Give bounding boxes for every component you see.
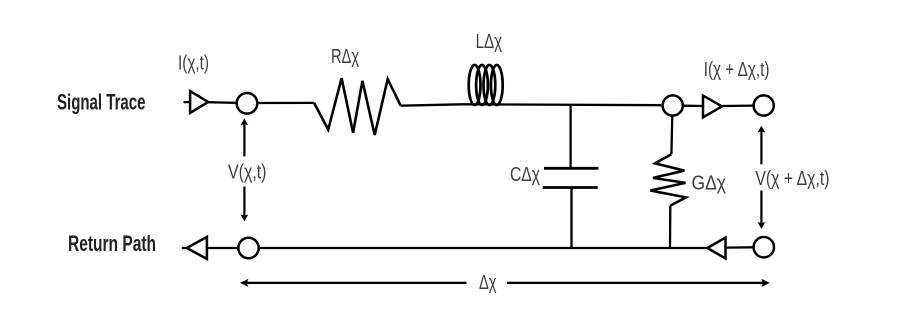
svg-text:LΔχ: LΔχ bbox=[476, 31, 503, 53]
svg-text:I(χ,t): I(χ,t) bbox=[178, 52, 209, 74]
wire buffer to bottom-right node bbox=[726, 246, 754, 249]
wire stub bottom-left bbox=[182, 247, 187, 249]
voltage arrow right down head bbox=[758, 222, 766, 229]
capacitor branch bottom wire bbox=[570, 188, 572, 248]
node circle top-right bbox=[754, 95, 774, 115]
svg-text:V(χ,t): V(χ,t) bbox=[228, 162, 267, 184]
voltage arrow left V(x,t) up head bbox=[241, 118, 249, 125]
conductance G zigzag bbox=[650, 154, 686, 206]
wire stub top-left bbox=[184, 101, 191, 103]
svg-text:RΔχ: RΔχ bbox=[331, 46, 359, 68]
voltage arrow left upper shaft bbox=[243, 123, 245, 156]
svg-text:Signal Trace: Signal Trace bbox=[57, 89, 146, 114]
capacitor branch top wire bbox=[569, 105, 571, 169]
dimension arrow left head bbox=[240, 279, 248, 287]
wire buffer to node 3 bbox=[722, 104, 753, 107]
return arrow buffer right (open triangle pointing left) bbox=[707, 238, 725, 259]
node circle bottom-left bbox=[238, 238, 258, 258]
resistor R zigzag bbox=[314, 78, 401, 135]
voltage arrow right V(x+dx,t) up head bbox=[758, 126, 766, 133]
capacitor C plates bbox=[544, 167, 598, 170]
inductor L coil loops bbox=[469, 65, 503, 105]
wire inductor to node 2 (with capacitor tap) bbox=[462, 103, 661, 106]
node circle bottom-right bbox=[754, 237, 774, 257]
voltage arrow right lower shaft bbox=[760, 191, 762, 225]
return arrow buffer left (open triangle pointing left) bbox=[187, 237, 207, 259]
wire triangle to bottom node bbox=[207, 247, 238, 249]
voltage arrow left lower shaft bbox=[243, 187, 245, 217]
svg-text:CΔχ: CΔχ bbox=[510, 164, 540, 186]
current arrow buffer left (open triangle) bbox=[190, 91, 208, 113]
dimension line right segment bbox=[507, 282, 764, 284]
conductance branch bottom wire bbox=[669, 206, 672, 248]
node circle top-middle bbox=[663, 95, 683, 115]
svg-text:GΔχ: GΔχ bbox=[692, 173, 727, 195]
return path rail bbox=[259, 247, 707, 249]
svg-text:Δχ: Δχ bbox=[479, 272, 497, 294]
node circle top-left bbox=[237, 93, 258, 114]
dimension line left segment bbox=[246, 282, 467, 284]
dimension arrow right head bbox=[761, 279, 769, 287]
voltage arrow left down head bbox=[241, 214, 249, 221]
svg-text:V(χ + Δχ,t): V(χ + Δχ,t) bbox=[755, 168, 829, 190]
svg-text:Return Path: Return Path bbox=[68, 231, 156, 256]
wire resistor to inductor bbox=[401, 104, 462, 105]
wire triangle to node bbox=[208, 101, 236, 104]
voltage arrow right upper shaft bbox=[760, 130, 762, 164]
current arrow buffer right (open triangle) bbox=[703, 96, 722, 118]
wire node to resistor bbox=[257, 102, 314, 104]
svg-text:I(χ + Δχ,t): I(χ + Δχ,t) bbox=[704, 59, 770, 81]
wire node2 to buffer bbox=[683, 105, 703, 108]
conductance branch top wire bbox=[670, 115, 673, 154]
